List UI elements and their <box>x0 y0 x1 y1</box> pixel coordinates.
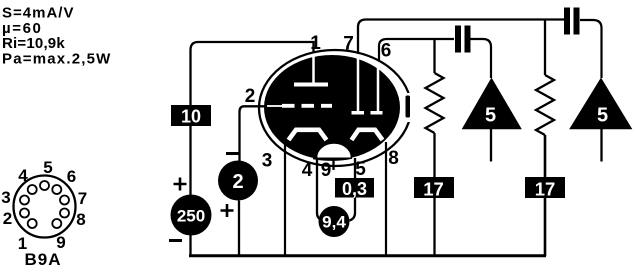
wire R1 top connection <box>433 39 435 73</box>
tube data text block <box>2 5 112 68</box>
amplifier stage triangle A2 <box>571 79 632 129</box>
svg-text:5: 5 <box>597 105 608 127</box>
wire C2 to amplifier triangle 2 <box>580 20 602 78</box>
value box 17 (R2) <box>525 177 565 198</box>
wire pin1 anode to 10 box (top left rail) <box>191 42 314 105</box>
wire left rail from 10 box to bus <box>189 126 191 255</box>
svg-text:S=4mA/V: S=4mA/V <box>2 5 74 22</box>
envelope fill bottom edge crossing dome <box>313 158 352 160</box>
svg-text:0,3: 0,3 <box>342 179 367 199</box>
svg-text:7: 7 <box>343 34 354 55</box>
svg-text:2: 2 <box>245 86 256 107</box>
triode 1 cathode (pin3) <box>289 130 327 140</box>
socket pin 8 <box>60 209 69 218</box>
wire pin8 cathode to bus <box>385 142 387 255</box>
svg-text:17: 17 <box>535 179 556 200</box>
svg-text:250: 250 <box>177 207 205 226</box>
socket pin 2 <box>20 209 29 218</box>
wire pin6 riser and line to C1 <box>379 39 454 60</box>
svg-text:3: 3 <box>1 188 10 207</box>
amplifier stage triangle A1 <box>463 79 521 129</box>
svg-text:5: 5 <box>355 159 366 180</box>
A1 output stub <box>490 129 492 162</box>
triode 2 anode lead (pin6) <box>377 62 380 111</box>
svg-text:5: 5 <box>43 158 52 177</box>
value box 0,3 <box>335 178 374 198</box>
resistor R1 zigzag <box>426 73 444 133</box>
pin9 stub <box>332 160 334 170</box>
battery 250 minus sign <box>169 239 182 242</box>
capacitor C2 <box>564 8 580 35</box>
svg-text:10: 10 <box>181 107 201 127</box>
socket pin 1 <box>28 219 37 228</box>
svg-text:1: 1 <box>310 33 321 54</box>
socket pin 7 <box>60 196 69 205</box>
battery 250 plus sign <box>174 178 187 191</box>
battery 2V circle <box>218 161 258 201</box>
svg-text:8: 8 <box>388 148 399 169</box>
capacitor C1 <box>455 26 471 53</box>
triode 2 grid lead (pin7) <box>357 56 360 111</box>
svg-text:8: 8 <box>76 210 85 229</box>
value box 10 <box>171 105 211 126</box>
battery 2 plus sign <box>221 204 234 217</box>
wire grid pin2 to 2V battery <box>240 106 269 161</box>
tube V1 envelope outline <box>259 50 411 166</box>
svg-text:6: 6 <box>381 41 392 62</box>
triode 1 grid lead-in (pin2) <box>267 105 283 107</box>
svg-text:2: 2 <box>232 171 243 193</box>
socket pin labels <box>1 158 87 253</box>
svg-text:4: 4 <box>18 166 28 185</box>
heater meter 9,4 circle <box>319 206 350 237</box>
tube V1 envelope fill <box>264 55 400 160</box>
svg-text:4: 4 <box>302 160 313 181</box>
wire pin7 riser and top line to C2 <box>358 20 564 55</box>
wire pin3 cathode to bus <box>284 142 286 255</box>
wire R2 top connection <box>544 20 546 76</box>
wire pin5 heater to 9,4 meter <box>350 158 356 221</box>
socket outline circle B9A <box>14 176 76 238</box>
svg-text:17: 17 <box>423 179 444 200</box>
svg-text:9,4: 9,4 <box>322 213 346 232</box>
svg-text:3: 3 <box>262 151 273 172</box>
svg-text:2: 2 <box>3 209 12 228</box>
triode 2 anode bar <box>371 111 383 115</box>
heater dome <box>317 143 352 158</box>
wire C1 to amplifier triangle 1 <box>470 39 491 78</box>
pin number labels <box>245 33 399 181</box>
triode 1 anode bar <box>294 83 328 87</box>
socket pin 3 <box>20 196 29 205</box>
wire R2 to 17 box and bus corner <box>544 135 547 256</box>
svg-text:6: 6 <box>67 167 76 186</box>
value box 17 (R1) <box>414 177 454 198</box>
socket pin 9 <box>52 219 61 228</box>
svg-text:B9A: B9A <box>24 250 61 269</box>
battery 2 minus sign <box>226 152 239 155</box>
A2 output stub <box>600 129 602 162</box>
triode 1 grid (dashed, pin2) <box>282 104 332 108</box>
svg-text:9: 9 <box>321 160 332 181</box>
triode 1 anode lead (pin1) <box>312 56 315 83</box>
svg-text:7: 7 <box>78 189 87 208</box>
socket pin 5 <box>40 181 49 190</box>
getter bar right side (outline interrupted) <box>403 93 415 122</box>
socket pin 4 <box>28 185 37 194</box>
triode 2 cathode (pin8) <box>352 130 383 140</box>
wire 2V battery to bus <box>238 201 240 256</box>
resistor R2 zigzag <box>536 75 554 135</box>
triode 2 grid bar <box>352 111 365 115</box>
svg-text:Ri=10,9k: Ri=10,9k <box>2 35 65 52</box>
svg-text:5: 5 <box>485 105 496 127</box>
svg-text:Pa=max.2,5W: Pa=max.2,5W <box>2 51 112 68</box>
ground bus wire <box>189 254 546 257</box>
wire R1 to 17 box and bus <box>433 133 435 255</box>
socket pin 6 <box>52 185 61 194</box>
wire pin4 heater to 9,4 meter <box>317 156 323 221</box>
battery 250V circle <box>171 195 212 236</box>
